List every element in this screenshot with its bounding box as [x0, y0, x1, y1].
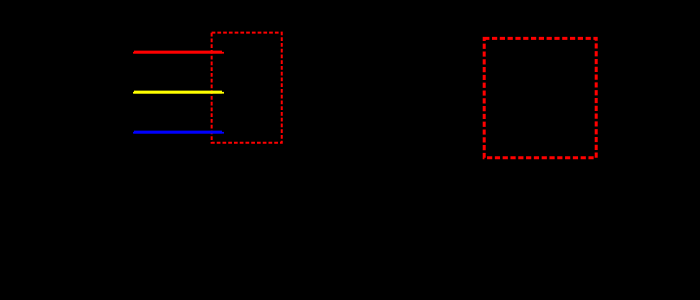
dashed highlight box 1 (left block) [212, 33, 282, 143]
wire L1 (red phase conductor) [133, 51, 224, 54]
dashed highlight box 2 (right block) [484, 38, 596, 157]
wire L2 (yellow phase conductor) [133, 91, 224, 94]
wire L3 (blue phase conductor) [133, 131, 224, 134]
